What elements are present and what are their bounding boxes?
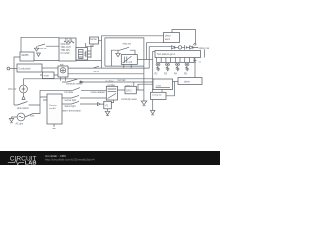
svg-text:Thermo: Thermo [49,104,57,107]
svg-text:driver: driver [184,80,190,83]
svg-text:R4: R4 [174,74,178,76]
svg-text:VCC 5V: VCC 5V [8,89,17,91]
svg-text:LAB: LAB [25,161,37,165]
svg-text:NE555: NE555 [22,55,30,57]
svg-text:slide switch: slide switch [17,107,29,110]
svg-text:VDD RST: VDD RST [61,44,72,46]
svg-text:testing bar: testing bar [152,93,162,96]
svg-text:R1 10k: R1 10k [65,39,73,41]
svg-text:option row: option row [199,47,210,50]
svg-text:buzzer: buzzer [90,38,97,41]
svg-text:http://circuitlab.com/c/25zwta: http://circuitlab.com/c/25zwta6p5qhr4 [45,158,95,162]
svg-text:low batt: low batt [118,79,126,82]
svg-text:sw on: sw on [94,71,100,73]
svg-text:R5: R5 [184,74,188,76]
svg-text:continuity tester: continuity tester [121,98,137,101]
svg-text:CV GND: CV GND [61,53,70,55]
svg-text:THR DIS: THR DIS [61,50,71,52]
svg-text:sensor light: sensor light [65,99,77,102]
svg-text:rectifier: rectifier [108,84,116,87]
svg-text:Test pattern gen 1: Test pattern gen 1 [157,53,176,56]
svg-text:GFCI: GFCI [126,90,132,92]
svg-text:fuse: fuse [30,116,35,118]
svg-text:alarm annunciator: alarm annunciator [63,109,82,112]
svg-text:5 volt probe: 5 volt probe [19,68,32,71]
svg-text:k1: k1 [199,62,202,64]
svg-text:relay sw: relay sw [123,43,132,46]
svg-text:on delay: on delay [106,80,115,82]
svg-text:reset sw: reset sw [39,47,47,50]
svg-text:relay 2: relay 2 [126,84,133,87]
svg-text:status light: status light [65,105,76,108]
svg-text:piezo: piezo [165,36,171,38]
svg-text:AC gen: AC gen [16,122,24,125]
svg-text:R2: R2 [155,74,159,76]
svg-text:stat A1: stat A1 [49,107,56,110]
svg-text:mains adapter: mains adapter [91,91,106,94]
svg-text:coil: coil [129,62,133,64]
svg-text:hot plate: hot plate [65,91,75,94]
svg-text:R3: R3 [164,74,168,76]
svg-text:computer switch: computer switch [66,83,83,86]
svg-text:elem: elem [165,39,170,41]
svg-text:12345: 12345 [156,86,162,88]
svg-text:TRG OUT: TRG OUT [61,47,72,49]
svg-text:mute: mute [44,75,50,78]
